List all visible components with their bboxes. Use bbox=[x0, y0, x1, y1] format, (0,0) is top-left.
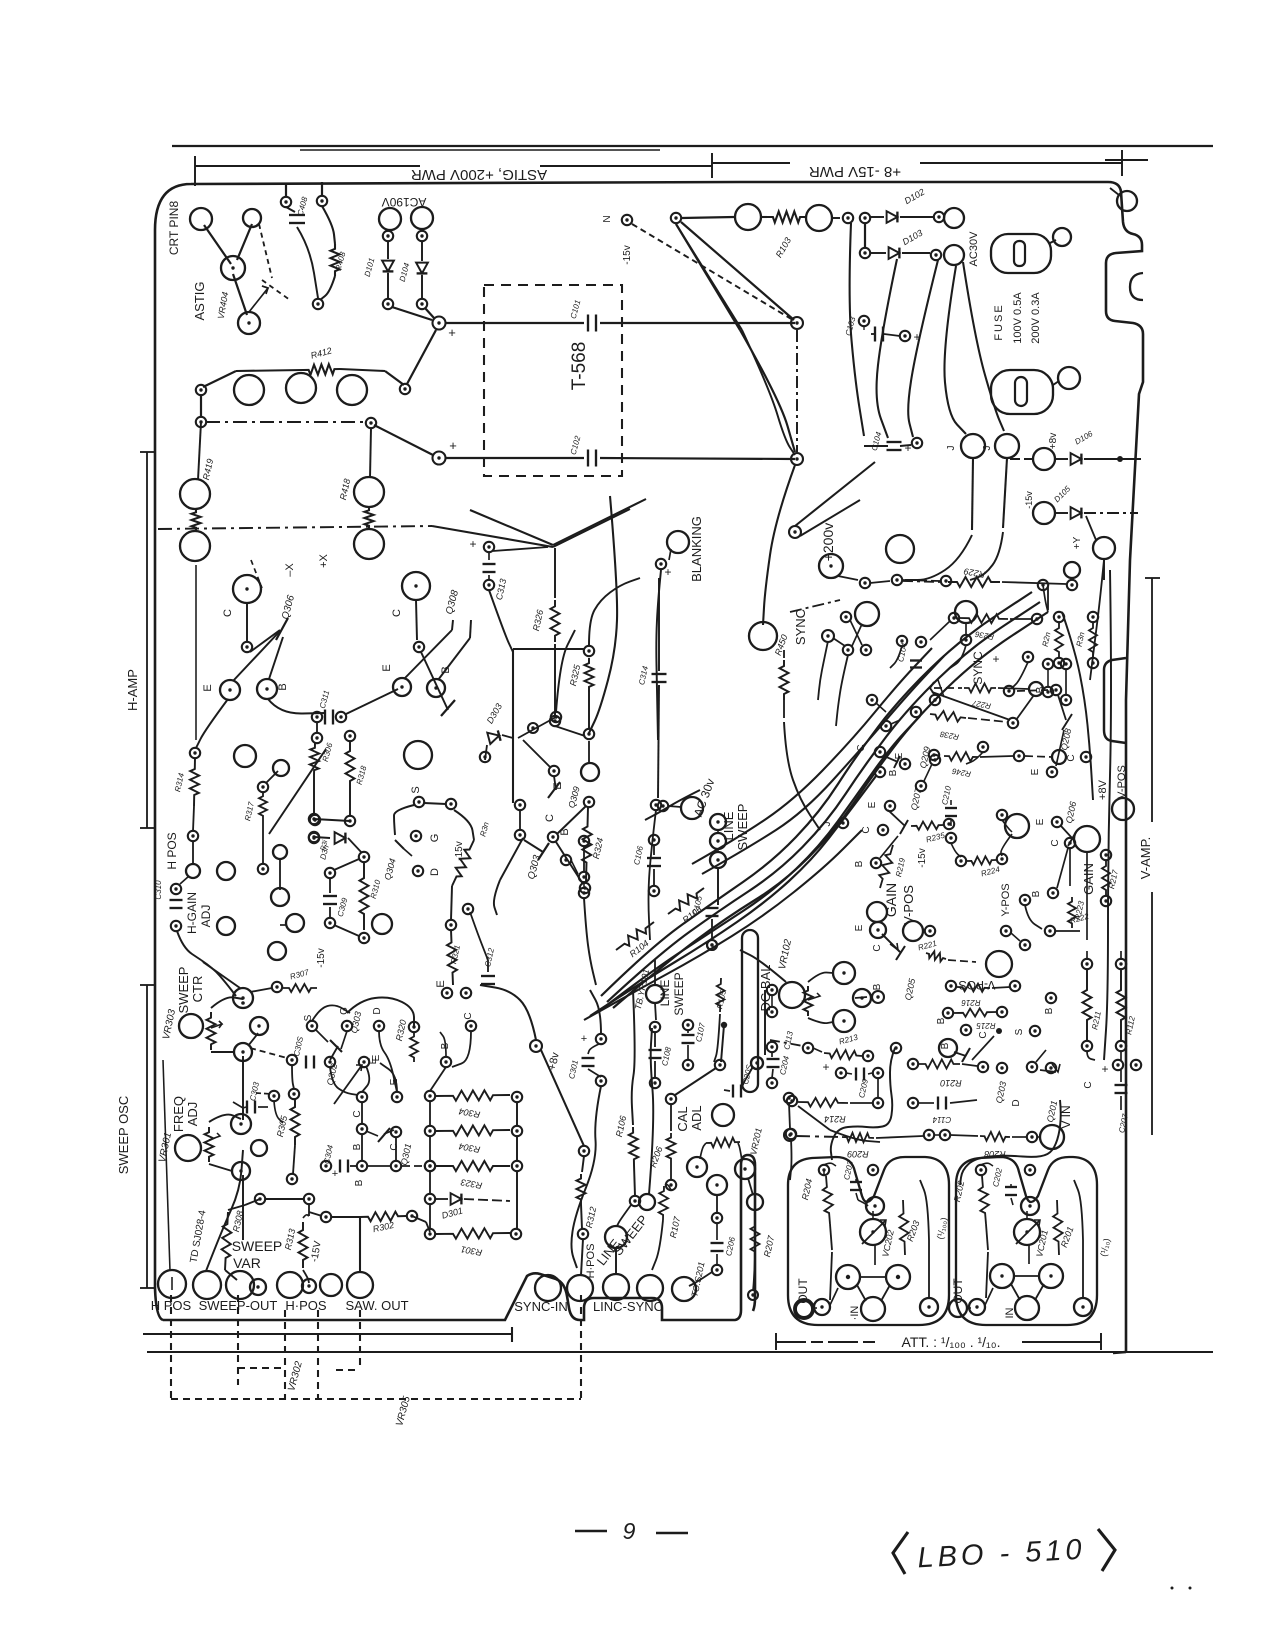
wire fet s bbox=[316, 1030, 328, 1042]
svg-text:S: S bbox=[410, 786, 422, 793]
label -15V sweep bbox=[309, 1240, 324, 1263]
svg-text:ADL: ADL bbox=[689, 1105, 704, 1130]
wire junction-R412 bbox=[407, 330, 436, 384]
wire att2 r202 top bbox=[981, 1163, 993, 1166]
label AC190V bbox=[382, 195, 427, 209]
svg-text:SAW. OUT: SAW. OUT bbox=[345, 1298, 408, 1313]
svg-text:SWEEP: SWEEP bbox=[176, 967, 191, 1014]
via b q207 bbox=[871, 858, 881, 868]
wire y819 bbox=[309, 814, 350, 824]
capacitor C102 bbox=[569, 434, 596, 466]
svg-text:CTR: CTR bbox=[190, 976, 205, 1003]
wire right grid bbox=[1087, 951, 1121, 1060]
via b q203 bbox=[961, 1025, 971, 1035]
via D fet bbox=[374, 1021, 384, 1031]
svg-text:FREQ: FREQ bbox=[171, 1096, 186, 1132]
svg-text:ASTIG, +200V PWR: ASTIG, +200V PWR bbox=[411, 166, 547, 183]
via rr1 bbox=[1020, 895, 1030, 905]
big right curve bbox=[589, 496, 617, 733]
wire R311 down bbox=[451, 886, 473, 920]
att block 2 outline bbox=[956, 1157, 1097, 1325]
wire vr102 bbox=[808, 972, 867, 1023]
board outline bbox=[155, 182, 1143, 1353]
label SWEEP-OUT bbox=[199, 1298, 278, 1313]
svg-text:+: + bbox=[448, 325, 456, 340]
resistor R223 bbox=[1068, 897, 1076, 928]
capacitor C305 bbox=[292, 1035, 314, 1068]
dashdot row1 bbox=[832, 217, 843, 219]
wire b-row bbox=[361, 1102, 363, 1124]
pad vr301 c bbox=[232, 1162, 250, 1180]
wire row2 drop bbox=[864, 223, 866, 248]
circle sync r top bbox=[955, 601, 977, 623]
via x556 bbox=[551, 712, 561, 722]
svg-text:GAIN: GAIN bbox=[1081, 863, 1096, 895]
wire ladder vert bbox=[516, 1102, 518, 1229]
svg-text:BLANKING: BLANKING bbox=[689, 516, 704, 582]
label BLANKING bbox=[689, 516, 704, 582]
label -15v midleft bbox=[316, 948, 327, 967]
trace bundle E bbox=[963, 262, 1004, 431]
svg-text:H-GAIN: H-GAIN bbox=[185, 892, 199, 934]
wire rd67 bbox=[924, 764, 932, 781]
via q301 c bbox=[352, 1092, 367, 1118]
svg-text:C: C bbox=[1050, 839, 1061, 846]
varicap VC201 bbox=[1014, 1219, 1050, 1258]
via vert2 bbox=[1003, 458, 1007, 528]
svg-text:R215: R215 bbox=[976, 1021, 996, 1030]
pad row1 big1 bbox=[735, 204, 761, 230]
svg-text:C: C bbox=[389, 1143, 400, 1150]
pad vr301 b bbox=[251, 1140, 267, 1156]
capacitor C204 bbox=[767, 1042, 792, 1088]
capacitor C311 bbox=[312, 689, 346, 724]
label R204 bbox=[800, 1178, 814, 1201]
wire Q308 EB up bbox=[404, 620, 471, 680]
label ADL bbox=[689, 1105, 704, 1130]
wire row4 bbox=[338, 1165, 424, 1167]
vert resistor R228 bbox=[1041, 612, 1065, 668]
label FUSE bbox=[993, 303, 1005, 340]
wire rf1b bbox=[876, 703, 886, 712]
via e q207 bbox=[885, 801, 895, 811]
label TB.YR101 bbox=[633, 968, 651, 1011]
resistor R307b bbox=[283, 968, 317, 992]
circle att1 tri R bbox=[886, 1265, 910, 1289]
capacitor C209 bbox=[856, 1068, 870, 1099]
dash to c305 bbox=[250, 1048, 287, 1058]
wire c313 diag bbox=[470, 499, 646, 551]
via R317 top bbox=[258, 782, 268, 792]
label R308 bbox=[231, 1210, 245, 1233]
label V-POS r bbox=[1116, 765, 1128, 799]
svg-text:B: B bbox=[936, 1017, 947, 1024]
via rc2 bbox=[1023, 652, 1033, 662]
via c309 top bbox=[325, 868, 335, 878]
pad blank bbox=[320, 1274, 342, 1296]
circle r450 top bbox=[749, 622, 777, 650]
label B q209 bbox=[888, 769, 899, 776]
svg-text:C: C bbox=[222, 609, 234, 617]
via saw junction bbox=[321, 1212, 331, 1222]
label VR102 bbox=[777, 938, 794, 971]
label J q207 bbox=[822, 822, 833, 827]
svg-text:D: D bbox=[1011, 1099, 1022, 1106]
varicap VC202 bbox=[860, 1219, 896, 1258]
resistor R325 bbox=[568, 658, 594, 739]
wire linc up bbox=[649, 1028, 653, 1194]
via Q303 B bbox=[548, 828, 571, 842]
label Q205 bbox=[903, 977, 918, 1002]
svg-text:J: J bbox=[982, 446, 993, 451]
svg-text:C: C bbox=[872, 944, 883, 951]
wire d303 right bbox=[518, 717, 556, 738]
river curve 1 bbox=[601, 592, 1032, 996]
via D bbox=[413, 866, 423, 876]
wire c309-r310 bbox=[334, 859, 359, 936]
via Q303 top bbox=[515, 800, 525, 810]
via d3 bbox=[1046, 1063, 1056, 1073]
label E q209 bbox=[894, 752, 905, 759]
transistor q203 bbox=[954, 1036, 994, 1062]
svg-text:+X: +X bbox=[318, 553, 330, 567]
page number bbox=[575, 1518, 688, 1544]
big circle HG3 bbox=[217, 917, 235, 935]
svg-text:Y-POS: Y-POS bbox=[1000, 883, 1012, 916]
via top1 bbox=[281, 197, 291, 207]
circle sync b bbox=[855, 602, 879, 626]
wire c106 col bbox=[584, 846, 596, 985]
wire r227 diags bbox=[932, 692, 1034, 720]
resistor R210 bbox=[908, 1059, 988, 1088]
wire rd12 bbox=[850, 620, 862, 645]
via left a bbox=[196, 385, 206, 395]
svg-text:C: C bbox=[856, 744, 867, 751]
circle att2 tri L bbox=[990, 1264, 1014, 1288]
svg-text:T-568: T-568 bbox=[569, 342, 590, 391]
svg-text:R209: R209 bbox=[847, 1149, 869, 1159]
via rr2 bbox=[1045, 926, 1055, 936]
svg-text:+: + bbox=[469, 537, 476, 551]
capacitor C207 bbox=[1113, 1060, 1141, 1134]
label E mid bbox=[368, 1057, 379, 1064]
transistor q209 bbox=[884, 756, 900, 768]
pad vr201 L bbox=[687, 1157, 707, 1177]
transistor q301 bars bbox=[366, 1128, 394, 1142]
via c209 c bbox=[873, 1098, 883, 1108]
pad ls a bbox=[710, 814, 726, 830]
wire sync chain bbox=[938, 645, 966, 697]
label V-POS mid bbox=[901, 885, 916, 925]
wire Q306 B bbox=[269, 637, 283, 679]
svg-text:N: N bbox=[602, 215, 613, 222]
label C q206 bbox=[1050, 839, 1061, 846]
label T-568 bbox=[569, 342, 590, 391]
svg-text:C310: C310 bbox=[154, 880, 163, 900]
capacitor C314 bbox=[637, 578, 666, 810]
wire diag 200v a bbox=[795, 462, 875, 526]
via rf1 bbox=[867, 695, 877, 705]
resistor R112 vert bbox=[1116, 959, 1137, 1051]
label G fet bbox=[339, 1007, 350, 1015]
capacitor C202 bbox=[1005, 1184, 1017, 1205]
label C113 bbox=[782, 1030, 795, 1051]
via C104 right bbox=[912, 438, 922, 448]
bottom wire y1137 bbox=[784, 1129, 840, 1141]
via C103 top bbox=[859, 316, 869, 326]
wire ac30 diag bbox=[645, 790, 700, 820]
H-AMP bracket bbox=[125, 452, 155, 828]
capacitor C303 bbox=[233, 1081, 268, 1114]
label Q201 bbox=[1045, 1100, 1059, 1124]
wire att1 tri bbox=[857, 1277, 890, 1301]
pad out att1 bbox=[795, 1300, 813, 1318]
pad vr303 c bbox=[234, 1043, 252, 1061]
dashdot c113 bbox=[770, 1040, 803, 1046]
svg-text:SYNC: SYNC bbox=[971, 651, 985, 685]
via right col a bbox=[784, 1093, 794, 1103]
wire rc decor bbox=[966, 662, 1028, 764]
resistor R222 bbox=[1063, 909, 1090, 925]
transistor Q309b bbox=[548, 776, 582, 809]
label fuse 100V bbox=[1012, 292, 1024, 344]
label SYNC bbox=[793, 609, 808, 645]
wire vr303 bot bbox=[211, 1051, 234, 1053]
dash N diagonal bbox=[632, 224, 793, 320]
vertical wire x511 bbox=[512, 649, 514, 803]
wire att1 vert bbox=[830, 1252, 832, 1300]
stray dots bbox=[1171, 1587, 1192, 1590]
label B q206 bbox=[1031, 890, 1042, 897]
wire d101-junction bbox=[392, 307, 432, 320]
label R223 bbox=[1073, 900, 1086, 921]
via c203 top bbox=[868, 1165, 878, 1175]
svg-text:V-POS: V-POS bbox=[1116, 765, 1128, 799]
svg-text:+: + bbox=[449, 438, 457, 453]
dash crt2 bbox=[259, 224, 290, 300]
via j q207 bbox=[838, 818, 848, 828]
svg-text:+: + bbox=[581, 1033, 587, 1045]
svg-text:C: C bbox=[391, 609, 403, 617]
pad out att2b bbox=[969, 1299, 985, 1315]
via d101 top bbox=[383, 231, 393, 241]
label B q207 bbox=[854, 860, 865, 867]
resistor R203 v bbox=[899, 1200, 909, 1255]
resistor R450 bbox=[780, 650, 789, 718]
wire r105 down bbox=[721, 1025, 724, 1062]
label LINE vert bbox=[721, 811, 736, 840]
wire rr bbox=[1025, 905, 1080, 931]
label +8V r bbox=[1097, 779, 1109, 800]
svg-text:IN: IN bbox=[1004, 1307, 1016, 1318]
circle gain mid bbox=[903, 921, 923, 941]
label R317 bbox=[243, 801, 256, 822]
capacitor C313 bbox=[469, 537, 508, 601]
resistor R229 bbox=[903, 566, 1000, 587]
edge inset mid bbox=[1104, 658, 1126, 743]
label C q203 bbox=[978, 1031, 989, 1038]
edge notch bbox=[1130, 273, 1143, 300]
via r229 right bbox=[1067, 580, 1077, 590]
river curve 4 bbox=[598, 716, 920, 1012]
trimmer R419 bbox=[180, 422, 215, 561]
via rc5 bbox=[930, 695, 940, 705]
wire rc10 bbox=[1065, 669, 1067, 695]
resistor R201 v bbox=[1053, 1200, 1063, 1255]
via b q206 bbox=[1048, 888, 1058, 898]
wire diag 200v b bbox=[800, 500, 860, 536]
label CRT PIN8 bbox=[167, 201, 181, 256]
resistor R408 bbox=[320, 206, 348, 300]
dot att1 R bbox=[896, 1275, 900, 1279]
label ADJ freq bbox=[185, 1102, 200, 1127]
resistor R238 bbox=[911, 707, 1018, 742]
wire pada bbox=[389, 230, 390, 231]
via rc6 bbox=[881, 721, 891, 731]
via e q208 bbox=[1047, 767, 1057, 777]
trace bundle B bbox=[877, 259, 897, 438]
big circle T1 bbox=[234, 375, 264, 405]
svg-text:ADJ: ADJ bbox=[185, 1102, 200, 1127]
svg-text:SWEEP: SWEEP bbox=[232, 1238, 283, 1254]
via S bbox=[414, 797, 424, 807]
via b q208 bbox=[1051, 685, 1061, 695]
pad CRT2 bbox=[243, 209, 261, 227]
via pair b bbox=[309, 815, 330, 852]
dashed VR305 box bbox=[171, 1295, 581, 1428]
wire pot-pad bbox=[233, 274, 247, 315]
pad after linc bbox=[672, 1277, 696, 1301]
svg-text:R214: R214 bbox=[824, 1114, 846, 1124]
via C1 fet bbox=[466, 1021, 476, 1031]
wire r317 diag bbox=[266, 771, 278, 783]
label D fet bbox=[372, 1007, 383, 1014]
resistor ladder R304a bbox=[425, 1090, 522, 1119]
wire Q306 E bbox=[233, 631, 280, 681]
capacitor C206 bbox=[711, 1223, 738, 1275]
via B1 fet bbox=[441, 1057, 451, 1067]
via r305 bot bbox=[287, 1174, 297, 1184]
via v in bbox=[891, 1043, 901, 1053]
trace bundle C bbox=[908, 260, 938, 437]
wire S2 down bbox=[454, 810, 474, 840]
pad Q306 E bbox=[202, 680, 240, 700]
wire pad-R412 bbox=[203, 371, 236, 387]
svg-text:-15v: -15v bbox=[917, 848, 928, 867]
label C202 bbox=[991, 1167, 1004, 1188]
pad SWEEP-OUT main bbox=[226, 1271, 266, 1299]
label ADJ bbox=[199, 905, 213, 928]
wire y458 cont bbox=[600, 458, 795, 459]
via s q203 bbox=[1030, 1026, 1040, 1036]
label Q303 C bbox=[544, 814, 556, 822]
wire att2 out bbox=[967, 1288, 993, 1308]
wire S bbox=[424, 803, 446, 804]
wire r105b bbox=[714, 1014, 720, 1062]
pad mid right2 bbox=[791, 453, 803, 465]
pad in att2 r bbox=[1074, 1298, 1092, 1316]
wire y1217 bbox=[309, 1212, 360, 1217]
label ASTIG bbox=[192, 281, 207, 320]
svg-text:+Y: +Y bbox=[1072, 536, 1083, 549]
label OUT att1 bbox=[796, 1278, 810, 1304]
label S fet bbox=[303, 1014, 314, 1021]
label C203 bbox=[842, 1160, 855, 1181]
top border rule bbox=[172, 146, 1213, 150]
wire vr201 bbox=[700, 1143, 742, 1161]
wire e to c bbox=[362, 1066, 369, 1092]
transistor Q306 bbox=[242, 594, 297, 653]
svg-text:J: J bbox=[822, 822, 833, 827]
label H-POS bot bbox=[285, 1298, 327, 1313]
via E fet bbox=[359, 1057, 369, 1067]
wire att1 link bbox=[858, 1200, 868, 1206]
label TO S201 bbox=[689, 1261, 706, 1298]
via c113 bbox=[803, 1043, 813, 1053]
via row1 c bbox=[860, 213, 870, 223]
via d2 bbox=[1027, 1062, 1037, 1072]
circle q206 big bbox=[1074, 826, 1100, 852]
via junction2 bbox=[433, 452, 446, 465]
label S bbox=[410, 786, 422, 793]
wire left ab bbox=[200, 395, 202, 417]
wire rd8b bbox=[951, 843, 961, 857]
wire y837 bbox=[309, 832, 330, 842]
transistor q201 bbox=[1036, 1050, 1060, 1072]
junction dot right bbox=[1117, 456, 1141, 462]
vert resistor R231 bbox=[1075, 612, 1099, 668]
via G fet bbox=[342, 1021, 352, 1031]
via y1137 c bbox=[1027, 1132, 1037, 1142]
via vr303 a bbox=[241, 1001, 245, 1005]
circle r317 bbox=[273, 760, 289, 776]
label GAIN r bbox=[1081, 863, 1096, 895]
label plus1 bbox=[448, 325, 456, 340]
via R408 bottom bbox=[313, 299, 323, 309]
via c106 col b bbox=[579, 872, 589, 882]
pad AC190 b bbox=[411, 207, 433, 229]
resistor R202 v bbox=[976, 1165, 989, 1250]
label C1 fet bbox=[463, 1012, 474, 1019]
diode D103 bbox=[870, 228, 930, 259]
wire cluster misc1 bbox=[330, 1067, 358, 1095]
svg-text:LINC-SYNC: LINC-SYNC bbox=[593, 1299, 663, 1314]
resistor R306 bbox=[310, 741, 335, 815]
via c q203 bbox=[996, 1028, 1002, 1034]
wire ladder left vert bbox=[429, 1101, 431, 1161]
wire pY down bbox=[1090, 560, 1104, 680]
pot VR303 bbox=[207, 1012, 223, 1050]
wire blanking bbox=[669, 549, 671, 560]
pad vr201 mid bbox=[707, 1175, 727, 1195]
via c q206 bbox=[1065, 838, 1075, 848]
via row4 c bbox=[391, 1161, 401, 1171]
transistor q206 bbox=[1057, 826, 1076, 888]
wire vertA bottom bbox=[555, 726, 585, 736]
via rd9 bbox=[997, 810, 1007, 820]
via q301 c2 bbox=[389, 1127, 401, 1151]
via row2 a bbox=[860, 248, 870, 258]
label +Y right bbox=[1072, 536, 1083, 549]
att block 1 outline bbox=[788, 1157, 949, 1325]
wire fet chain bbox=[292, 1065, 294, 1089]
capacitor C114 bbox=[908, 1097, 977, 1125]
via rd1 bbox=[841, 612, 851, 622]
via r312 bot bbox=[578, 1229, 588, 1239]
pad in att1 r bbox=[920, 1298, 938, 1316]
svg-text:E: E bbox=[867, 801, 878, 808]
label SYNC r bbox=[971, 651, 985, 685]
